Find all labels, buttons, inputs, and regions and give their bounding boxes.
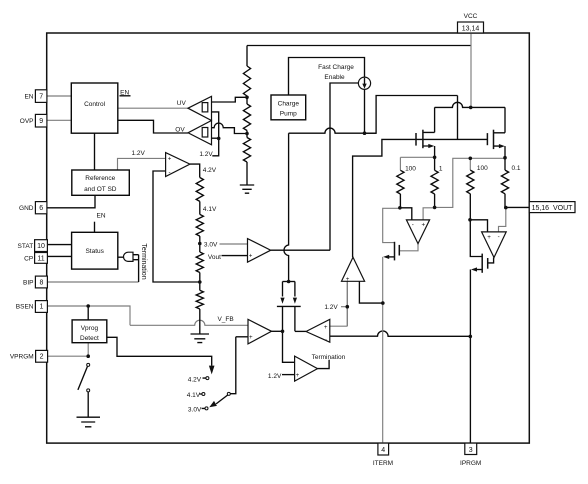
svg-text:+: + xyxy=(346,276,350,283)
svg-text:UV: UV xyxy=(177,100,187,107)
svg-text:Vprog: Vprog xyxy=(81,325,99,332)
svg-text:BIP: BIP xyxy=(23,279,33,286)
svg-text:Vout: Vout xyxy=(208,254,221,261)
svg-text:Control: Control xyxy=(84,101,106,108)
svg-text:15,16 VOUT: 15,16 VOUT xyxy=(532,205,574,212)
svg-text:+: + xyxy=(487,234,491,241)
svg-text:Detect: Detect xyxy=(80,335,99,342)
svg-text:STAT: STAT xyxy=(18,243,34,250)
svg-text:Status: Status xyxy=(85,248,104,255)
svg-text:VCC: VCC xyxy=(464,13,478,20)
svg-text:+: + xyxy=(324,324,328,331)
svg-text:Enable: Enable xyxy=(324,74,345,81)
svg-text:6: 6 xyxy=(39,205,43,212)
svg-text:CP: CP xyxy=(24,255,33,262)
svg-text:VPRGM: VPRGM xyxy=(10,354,34,361)
svg-text:and OT SD: and OT SD xyxy=(84,186,117,193)
svg-text:100: 100 xyxy=(477,165,488,172)
svg-text:2: 2 xyxy=(40,354,44,361)
svg-text:-: - xyxy=(412,221,414,228)
svg-text:+: + xyxy=(296,372,300,379)
svg-text:Pump: Pump xyxy=(280,111,297,118)
svg-text:ITERM: ITERM xyxy=(373,460,393,467)
svg-text:0.1: 0.1 xyxy=(511,165,520,172)
svg-text:1.2V: 1.2V xyxy=(132,150,146,157)
svg-text:Charge: Charge xyxy=(278,101,300,108)
svg-text:7: 7 xyxy=(39,94,43,101)
svg-text:4: 4 xyxy=(381,447,385,454)
svg-text:8: 8 xyxy=(39,279,43,286)
svg-text:V_FB: V_FB xyxy=(217,316,233,323)
svg-text:-: - xyxy=(498,233,500,240)
svg-text:IPRGM: IPRGM xyxy=(460,460,481,467)
svg-text:3.0V: 3.0V xyxy=(188,407,202,414)
svg-text:3: 3 xyxy=(469,447,473,454)
svg-text:1.2V: 1.2V xyxy=(268,373,282,380)
svg-text:OV: OV xyxy=(175,126,185,133)
svg-text:9: 9 xyxy=(39,118,43,125)
svg-text:10: 10 xyxy=(37,243,45,250)
svg-text:1.2V: 1.2V xyxy=(324,304,338,311)
svg-text:3.0V: 3.0V xyxy=(204,241,218,248)
svg-text:Fast Charge: Fast Charge xyxy=(318,64,354,71)
svg-text:4.1V: 4.1V xyxy=(187,392,201,399)
svg-text:4.1V: 4.1V xyxy=(203,206,217,213)
svg-text:EN: EN xyxy=(96,212,105,219)
svg-text:EN: EN xyxy=(24,94,33,101)
svg-text:+: + xyxy=(168,156,172,163)
svg-text:-: - xyxy=(325,337,327,344)
svg-text:1: 1 xyxy=(439,165,443,172)
svg-text:Termination: Termination xyxy=(140,243,147,279)
svg-text:-: - xyxy=(168,169,170,176)
svg-text:+: + xyxy=(249,253,253,260)
svg-text:11: 11 xyxy=(37,255,44,262)
svg-text:OVP: OVP xyxy=(20,118,34,125)
svg-text:BSEN: BSEN xyxy=(16,303,34,310)
svg-text:100: 100 xyxy=(405,165,416,172)
svg-text:13,14: 13,14 xyxy=(462,26,480,33)
svg-text:+: + xyxy=(421,222,425,229)
svg-text:Termination: Termination xyxy=(312,354,346,361)
svg-text:4.2V: 4.2V xyxy=(203,167,217,174)
svg-text:+: + xyxy=(249,334,253,341)
svg-text:1.2V: 1.2V xyxy=(199,151,213,158)
svg-text:4.2V: 4.2V xyxy=(188,376,202,383)
svg-text:1: 1 xyxy=(39,303,43,310)
svg-text:GND: GND xyxy=(19,205,34,212)
svg-text:Reference: Reference xyxy=(85,175,115,182)
